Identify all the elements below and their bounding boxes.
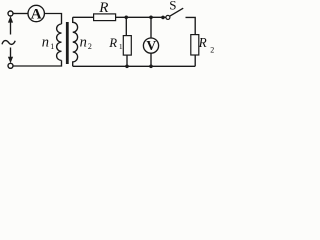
branch wire to voltmeter (150, 17, 152, 38)
wire top-left to ammeter (13, 13, 28, 15)
svg-text:n: n (42, 34, 49, 50)
arrow up to top terminal (10, 20, 12, 35)
junction dot R1 bottom (125, 65, 129, 69)
junction dot V bottom (149, 65, 153, 69)
resistor R2 (191, 35, 199, 55)
terminal bottom-left (8, 63, 13, 68)
switch S blade (170, 8, 184, 16)
ac source tilde (2, 41, 15, 45)
svg-text:R: R (98, 0, 108, 16)
wire secondary top to resistor R (73, 16, 94, 18)
wire left lower (10, 48, 12, 61)
wire ammeter to corner (44, 14, 61, 25)
wire voltmeter to bottom (150, 53, 152, 66)
svg-text:2: 2 (210, 46, 214, 55)
svg-text:V: V (146, 38, 156, 53)
svg-text:1: 1 (50, 42, 54, 51)
svg-text:1: 1 (119, 42, 123, 51)
arrow down (bottom terminal) (8, 57, 13, 64)
svg-text:2: 2 (88, 42, 92, 51)
junction dot before switch (161, 16, 165, 20)
resistor R (94, 14, 116, 21)
terminal top-left (8, 11, 13, 16)
svg-text:n: n (80, 34, 87, 50)
junction dot R1 top (125, 15, 129, 19)
resistor R1 (123, 36, 131, 56)
junction dot V top (149, 15, 153, 19)
bottom wire right loop (73, 65, 196, 67)
primary winding n1 (57, 24, 62, 60)
branch wire to R1 (125, 17, 127, 35)
secondary winding n2 (73, 17, 78, 66)
svg-text:R: R (108, 36, 117, 50)
svg-text:R: R (198, 35, 207, 50)
wire coil bottom to bottom-left wire (13, 60, 62, 66)
wire R1 to bottom (126, 55, 128, 66)
wire switch to corner (186, 17, 196, 34)
ammeter A1 (28, 5, 44, 21)
voltmeter V1 (143, 38, 158, 53)
wire R to switch (116, 16, 166, 18)
svg-text:A: A (31, 6, 42, 22)
wire R2 to bottom (194, 55, 196, 66)
svg-text:S: S (169, 0, 176, 13)
transformer core (66, 22, 69, 64)
switch S pivot (166, 15, 170, 19)
arrow up (top terminal) (8, 16, 13, 23)
